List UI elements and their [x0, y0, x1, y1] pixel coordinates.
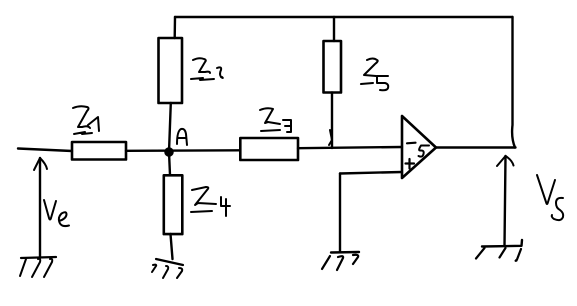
arrow Ve	[39, 158, 41, 258]
junction hook at Z5 bottom	[329, 130, 332, 145]
wire: top wire down to Z5 top	[333, 17, 335, 41]
wire: Z1 to Z3 through node A	[126, 149, 240, 152]
label Vs	[537, 175, 555, 204]
resistor Z1	[72, 142, 126, 160]
op-amp gain squiggle 5	[419, 146, 430, 157]
resistor Z2	[159, 38, 183, 103]
wire: top feedback horizontal	[175, 16, 513, 18]
ground (op-amp + input)	[331, 251, 359, 254]
wire: non-inverting input down	[339, 174, 341, 253]
wire: input left segment	[18, 149, 72, 152]
label Z2	[193, 58, 210, 73]
label Z4	[192, 187, 216, 205]
wire: op-amp output to feedback node	[436, 146, 516, 148]
resistor Z4	[164, 175, 183, 234]
op-amp minus sign	[407, 142, 416, 145]
node A junction dot	[165, 148, 173, 156]
op-amp plus sign	[406, 159, 415, 169]
ground (Z4)	[156, 259, 183, 265]
arrow Vs	[505, 156, 506, 246]
label Z5	[364, 59, 378, 77]
resistor Z5	[324, 41, 342, 93]
label Z3	[260, 108, 280, 124]
wire: node A down to Z4 top	[169, 152, 170, 175]
label Z1	[73, 106, 90, 128]
ground (Vs)	[482, 240, 522, 247]
wire: top wire down to Z2 top	[173, 17, 176, 38]
wire: Z4 bottom down to ground	[171, 234, 173, 259]
wire: Z2 bottom down to node A	[169, 103, 171, 152]
wire: Z5 bottom down to summing junction	[331, 93, 333, 149]
label Ve	[44, 200, 56, 220]
resistor Z3	[240, 138, 298, 160]
wire: feedback right vertical down to output node	[512, 17, 515, 148]
wire: non-inverting input to left	[340, 172, 402, 174]
label node A	[177, 129, 187, 145]
op-amp U1	[402, 116, 436, 178]
ground (Ve)	[21, 257, 56, 258]
wire: Z3 to op-amp inverting input	[298, 147, 402, 148]
